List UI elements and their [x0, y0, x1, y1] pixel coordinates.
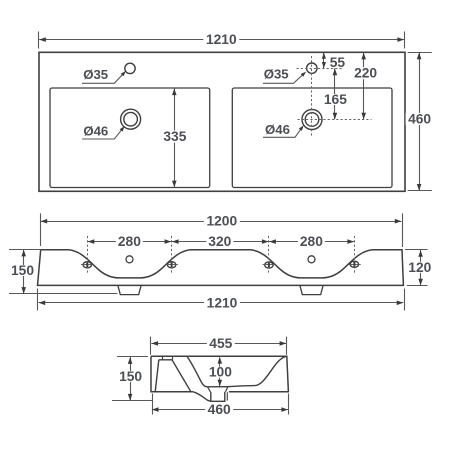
- svg-text:460: 460: [408, 112, 431, 127]
- svg-text:220: 220: [354, 66, 377, 81]
- svg-text:Ø46: Ø46: [83, 123, 108, 138]
- svg-text:150: 150: [11, 263, 34, 278]
- svg-text:1200: 1200: [206, 214, 237, 229]
- svg-text:280: 280: [300, 234, 323, 249]
- svg-text:120: 120: [408, 260, 431, 275]
- svg-text:Ø46: Ø46: [265, 122, 290, 137]
- svg-text:100: 100: [209, 365, 232, 380]
- svg-text:150: 150: [119, 369, 142, 384]
- svg-text:1210: 1210: [206, 32, 237, 47]
- svg-text:Ø35: Ø35: [264, 67, 289, 82]
- svg-text:460: 460: [208, 402, 231, 417]
- svg-text:55: 55: [330, 55, 346, 70]
- svg-text:320: 320: [208, 234, 231, 249]
- svg-text:1210: 1210: [207, 295, 238, 310]
- svg-text:Ø35: Ø35: [83, 67, 108, 82]
- svg-text:455: 455: [209, 336, 232, 351]
- svg-text:335: 335: [163, 129, 186, 144]
- svg-text:165: 165: [324, 92, 347, 107]
- svg-text:280: 280: [118, 234, 141, 249]
